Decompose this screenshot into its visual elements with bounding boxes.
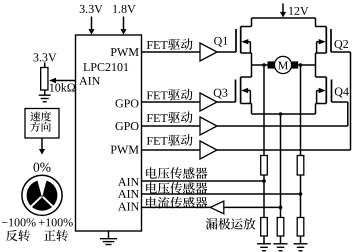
dial label forward xyxy=(44,230,68,242)
wire MCU pin to FET driver 2 (GPO to Q3) xyxy=(142,101,201,103)
transistor Q2 (top-right NMOS) xyxy=(316,18,332,65)
dial label -100% xyxy=(2,218,36,226)
wire motor-right sense drop xyxy=(300,65,302,218)
FET driver buffer 2 (GPO to Q3) xyxy=(200,93,217,111)
dial label 0% xyxy=(34,163,51,172)
wire driver 1 to Q1 gate xyxy=(217,51,236,53)
label voltage sensor 1 xyxy=(146,167,207,179)
node divider tap right xyxy=(299,192,303,196)
potentiometer wiper arrow to AIN xyxy=(49,78,76,83)
FET driver buffer 1 (PWM to Q1) xyxy=(200,43,217,61)
wire Q2 gate to far-right drop xyxy=(331,52,351,150)
label box speed/direction xyxy=(25,109,59,139)
arrow box to dial xyxy=(39,138,45,155)
wire AIN voltage sense 2 tap xyxy=(142,193,301,195)
wire 3.3V to potentiometer xyxy=(44,63,46,68)
wire MCU pin to FET driver 3 (GPO to Q4) xyxy=(142,125,201,127)
FET driver buffer 4 (PWM to Q2) xyxy=(200,141,217,159)
wire 1.8V into block top xyxy=(120,17,126,35)
pin label AIN (current sense) xyxy=(118,203,139,211)
MCU name LPC2101 xyxy=(83,63,128,71)
label Q3 xyxy=(214,89,228,99)
node motor right terminal xyxy=(299,63,303,67)
wire driver 4 to Q2 gate (bottom run) xyxy=(217,149,351,151)
node op-amp to shunt junction xyxy=(279,206,283,210)
wire driver 3 to Q4 gate (bottom run) xyxy=(217,125,348,127)
potentiometer RP1 body xyxy=(41,68,48,91)
pin label PWM (pin 4) xyxy=(111,146,139,154)
label current sensor xyxy=(146,197,207,209)
label FET driver 1 (PWM to Q1) xyxy=(147,38,193,50)
node current sense tap on bottom rail xyxy=(279,112,283,116)
wire 3.3V into block top xyxy=(88,17,94,35)
ground below MCU block xyxy=(100,231,117,245)
ground below left divider xyxy=(257,244,271,251)
ground below potentiometer xyxy=(39,95,51,102)
pin label PWM (pin 1) xyxy=(111,48,139,56)
wire top rail xyxy=(252,17,316,19)
net 3.3V supply label xyxy=(80,5,103,13)
label FET driver 3 (GPO to Q4) xyxy=(147,111,193,123)
wire shunt to ground xyxy=(280,236,282,243)
node divider tap left xyxy=(262,179,266,183)
wire driver 2 to Q3 gate xyxy=(217,101,236,103)
FET driver buffer 3 (GPO to Q4) xyxy=(200,117,217,135)
op-amp U2 current sense buffer xyxy=(210,201,224,214)
label FET driver 2 (GPO to Q3) xyxy=(147,89,193,101)
wire potentiometer to ground xyxy=(44,90,46,95)
net 3.3V pot supply label xyxy=(34,53,57,61)
transistor Q3 (bottom-left NMOS) xyxy=(236,65,252,114)
wire AIN voltage sense 1 tap xyxy=(142,180,265,182)
net 12V supply label xyxy=(289,7,308,15)
wire Q4 gate to right drop xyxy=(332,102,348,126)
transistor Q1 (top-left NMOS) xyxy=(236,18,252,65)
pin label GPO (pin 3) xyxy=(115,122,138,130)
label drain op-amp xyxy=(206,218,256,230)
wire MCU pin to FET driver 4 (PWM to Q2) xyxy=(142,149,201,151)
wire 12V into top rail xyxy=(280,4,286,18)
transistor Q4 (bottom-right NMOS) xyxy=(316,65,332,114)
MCU block U1 LPC2101 outline xyxy=(76,35,142,231)
wire op-amp input to shunt xyxy=(224,206,281,208)
wire motor row xyxy=(252,64,316,66)
resistor divider bottom left xyxy=(261,218,268,237)
label Q1 xyxy=(214,37,227,47)
dial label +100% xyxy=(39,218,73,226)
dial knob graphic xyxy=(22,175,62,215)
value label 10k&#937; xyxy=(50,83,75,91)
dial label reverse xyxy=(6,230,30,242)
wire left divider to ground xyxy=(263,236,265,243)
label voltage sensor 2 xyxy=(146,182,207,194)
resistor divider top right xyxy=(297,156,304,176)
label Q4 xyxy=(335,88,349,98)
ground below right divider xyxy=(294,244,308,251)
wire right divider to ground xyxy=(300,236,302,243)
label FET driver 4 (PWM to Q2) xyxy=(147,134,193,146)
wire motor-left sense drop xyxy=(263,65,265,218)
ground below shunt xyxy=(274,244,288,251)
pin label GPO (pin 2) xyxy=(115,99,138,107)
node motor left terminal xyxy=(262,63,266,67)
resistor divider bottom right xyxy=(297,218,304,237)
wire AIN to current sense op-amp xyxy=(142,206,211,208)
pin label AIN (voltage sense 1) xyxy=(118,178,139,186)
net 1.8V supply label xyxy=(113,5,135,13)
wire current sense drop xyxy=(280,114,282,218)
label Q2 xyxy=(334,40,348,50)
shunt resistor R-shunt xyxy=(277,218,284,237)
pin label AIN (voltage sense 2) xyxy=(118,190,139,198)
resistor divider top left xyxy=(261,156,268,176)
pin label AIN (speed pot input) xyxy=(79,77,100,85)
wire bottom rail (FET sources) xyxy=(252,113,316,115)
wire MCU pin to FET driver 1 (PWM to Q1) xyxy=(142,51,201,53)
motor M1 DC motor xyxy=(268,56,299,73)
